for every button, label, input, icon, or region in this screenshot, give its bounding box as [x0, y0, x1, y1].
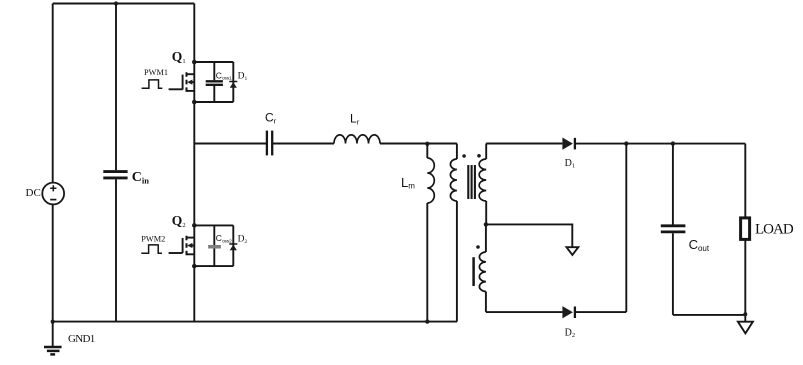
transformer T1 primary winding [450, 144, 456, 322]
node: phase dot primary [462, 154, 466, 158]
wire: secondary bottom output to D2 [486, 311, 563, 313]
wire: top bus from left rail to Q1 drain rail [53, 3, 195, 5]
capacitor Coss2 (gray) [208, 245, 221, 249]
wire: D2 cathode to cathode bus [575, 311, 626, 313]
wire: Cr to Lr [273, 143, 334, 145]
svg-text:Q2: Q2 [172, 213, 186, 229]
svg-text:Lr: Lr [350, 112, 360, 127]
transformer T1 core [468, 165, 475, 199]
wire: Q1 snubber rectangle top [194, 61, 233, 63]
wire: LOAD branch upper [744, 144, 746, 218]
PWM1 gate pulse symbol [142, 80, 163, 88]
capacitor Cr [267, 131, 272, 156]
transistor Q1 (N-MOSFET) [183, 72, 195, 92]
node: Q2 source junction [192, 264, 197, 269]
svg-text:GND1: GND1 [68, 333, 95, 345]
node: phase dot secondary lower [476, 245, 480, 249]
diode D2 (Q2 body diode) [229, 244, 237, 250]
wire: Cout branch upper [672, 144, 674, 225]
capacitor Coss2 branch wire [213, 225, 215, 266]
node: junction dot top bus / Cin branch [114, 1, 118, 5]
svg-text:Cout: Cout [689, 237, 710, 253]
svg-text:PWM2: PWM2 [141, 234, 165, 243]
transformer T1 secondary lower winding [479, 224, 486, 312]
svg-text:D2: D2 [565, 327, 575, 339]
svg-text:Coss1: Coss1 [216, 70, 232, 81]
wire: Q1 gate lead [169, 88, 183, 90]
diode D2 (Q2 body diode) branch wire [232, 225, 234, 266]
svg-text:LOAD: LOAD [755, 222, 794, 238]
diode D1 (Q1 body diode) branch wire [232, 62, 234, 102]
capacitor Cin [103, 172, 127, 178]
ground GND1 [44, 322, 62, 355]
svg-text:Coss2: Coss2 [216, 233, 232, 244]
ground: center tap (open triangle) [567, 247, 579, 255]
svg-text:Cr: Cr [265, 111, 277, 126]
node: Lm bottom junction [425, 319, 429, 323]
voltage source DC V1 [42, 183, 64, 205]
wire: cathode bus vertical [625, 144, 627, 312]
node: Q1 source junction [192, 100, 197, 105]
wire: output bottom rail [673, 314, 745, 316]
svg-text:D1: D1 [238, 71, 248, 82]
ground: output (open triangle) [738, 322, 753, 334]
wire: left rail lower (DC- to bottom bus) [52, 204, 54, 321]
wire: Cin branch lower [115, 179, 117, 321]
diode D1 (rectifier) [562, 138, 575, 150]
svg-text:Cin: Cin [132, 170, 149, 186]
wire: Lr to transformer primary [380, 143, 457, 145]
transistor Q2 (N-MOSFET) [183, 236, 195, 256]
PWM2 gate pulse symbol [141, 245, 162, 253]
node: Cout top junction [671, 141, 675, 145]
wire: center tap to ground [486, 224, 572, 247]
node: bottom bus / left rail junction [51, 320, 55, 324]
wire: bottom bus [53, 321, 457, 323]
wire: Q2 gate lead [169, 252, 183, 254]
wire: Q2 snubber rectangle bottom [194, 265, 233, 267]
wire: LOAD branch lower [744, 239, 746, 321]
resistor LOAD [741, 218, 750, 240]
wire: Cout branch lower [672, 233, 674, 315]
wire: Cin branch upper [115, 4, 117, 171]
diode D1 (Q1 body diode) [229, 82, 237, 88]
node: Q1 drain junction [192, 60, 197, 65]
transformer T1 secondary upper winding [479, 144, 486, 225]
node: Q2 drain junction [192, 223, 197, 228]
node: cathode bus top junction [624, 141, 628, 145]
node: phase dot secondary upper [477, 154, 481, 158]
wire: Q1 snubber rectangle bottom [194, 101, 233, 103]
node: output ground junction [743, 312, 747, 316]
svg-text:PWM1: PWM1 [144, 68, 168, 77]
inductor Lr [334, 135, 380, 144]
diode D2 (rectifier) [562, 306, 575, 318]
node: Lm top junction [425, 142, 429, 146]
node: center tap junction [484, 222, 488, 226]
wire: Q2 snubber rectangle top [194, 224, 233, 226]
wire: secondary top output to D1 [486, 143, 562, 145]
capacitor Coss1 [206, 81, 223, 85]
wire: Q1/Q2 vertical rail (drain-source bus) [193, 4, 195, 322]
wire: left rail upper (DC+ to top bus) [52, 4, 54, 183]
inductor Lm [427, 144, 434, 322]
svg-text:Q1: Q1 [172, 49, 186, 65]
capacitor Cout [661, 226, 686, 232]
svg-text:D2: D2 [238, 234, 248, 245]
wire: D1 cathode to output top rail [575, 143, 745, 145]
transformer T1 lower core bar [472, 257, 475, 286]
capacitor Coss1 branch wire [213, 62, 215, 102]
svg-text:Lm: Lm [401, 175, 415, 191]
svg-text:D1: D1 [565, 158, 575, 170]
svg-text:DC: DC [26, 187, 41, 199]
wire: bridge midpoint to Cr [194, 143, 266, 145]
